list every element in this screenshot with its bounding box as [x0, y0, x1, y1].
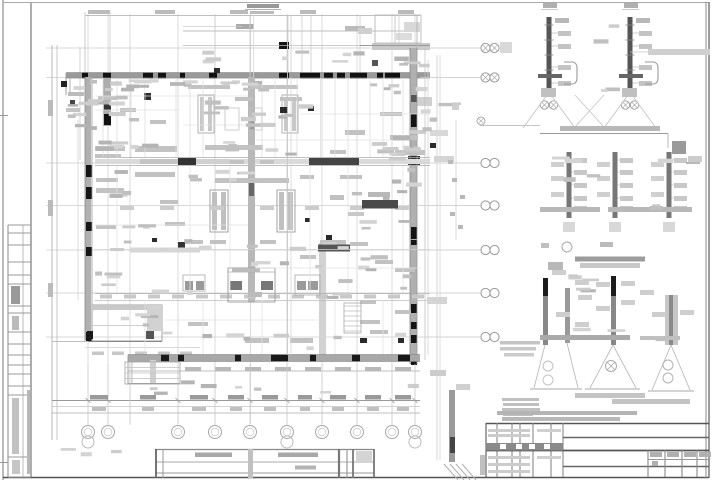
title block: [480, 423, 711, 477]
bottom exterior wall with columns: [128, 355, 420, 372]
annotation noise right wall zone: [389, 127, 432, 187]
long vertical section lines: [437, 55, 456, 460]
middle axis bubble pairs: [481, 42, 512, 342]
row3 header: [541, 242, 645, 268]
annotation noise stage area: [121, 313, 159, 326]
stage room bottom left: [52, 305, 200, 355]
annotation noise above top wall: [202, 51, 364, 64]
annotation noise below top wall: [73, 79, 197, 91]
row2 header label band: [540, 126, 668, 148]
sheet border frame inner left line: [30, 2, 32, 478]
annotation noise right details row3: [568, 275, 667, 342]
fixture detail lower left: [183, 275, 205, 291]
row1 crossing braces: [574, 95, 605, 128]
annotation noise y258 band: [251, 255, 388, 269]
rebar detail row2 b: [597, 152, 633, 232]
corner pier top-left: [61, 78, 111, 126]
row2 horizontal tie band: [540, 207, 692, 212]
top dimension line 2: [183, 24, 420, 31]
annotation noise upper-left interior: [68, 96, 139, 130]
row3 footing marker circles: [543, 360, 673, 385]
lintel beam mark: [330, 192, 398, 216]
interior dimension string y295: [95, 294, 430, 301]
bottom dimension lines: [52, 364, 420, 425]
row1 long leader label: [630, 49, 710, 55]
annotation noise below top wall right: [220, 80, 269, 91]
bottom axis bubbles: [82, 426, 422, 449]
vestibule outline top right: [375, 15, 459, 110]
row3 label boxes: [552, 270, 694, 327]
annotation noise below-plan dims: [150, 380, 419, 395]
top dim segment y26: [183, 26, 242, 28]
rebar detail row2 c: [651, 152, 687, 232]
plan title text: [245, 4, 281, 14]
row3 detail middle bar: [611, 276, 616, 345]
annotation noise y240 band: [110, 239, 349, 251]
annotation noise right details row1 gaps: [594, 24, 621, 92]
rebar detail row1 right (column elevation): [604, 3, 658, 128]
top dimension line 1: [85, 10, 420, 16]
left registration strip with stamp cells: [0, 116, 31, 478]
annotation noise below beam: [115, 170, 263, 182]
annotation noise mid-left: [96, 141, 159, 151]
left dimension lines: [48, 45, 57, 440]
level mark text row y207: [120, 206, 409, 210]
top dim extension verticals: [80, 12, 375, 160]
annotation noise above bottom wall: [161, 332, 406, 351]
vertical column axis grid lines: [88, 14, 415, 424]
left exterior wall with columns: [78, 77, 92, 341]
sheet border frame bottom line: [3, 477, 709, 479]
row3 tie band: [540, 335, 680, 340]
top annotation boxes: [358, 22, 420, 66]
bottom wall left segment: [128, 355, 180, 384]
annotation noise upper-mid interior: [204, 100, 313, 127]
fixture detail lower right: [295, 275, 320, 295]
pilaster pair below top wall: [198, 95, 298, 133]
small pilaster boxes below top wall: [225, 108, 262, 130]
annotation noise right of wall upper: [421, 102, 461, 121]
row3 detail right bar: [665, 295, 678, 345]
pilaster pair mid plan: [210, 190, 295, 232]
upper right wall band: [183, 42, 430, 50]
wall section detail lower centre: [427, 130, 476, 480]
interior partition hairlines: [95, 78, 430, 354]
sheet border frame top line: [3, 2, 709, 4]
sheet border frame right double line: [706, 2, 709, 478]
annotation noise mid-centre: [223, 141, 296, 155]
row3 detail left bars: [543, 262, 570, 345]
annotation noise room2 left: [110, 191, 157, 229]
horizontal column axis grid lines: [46, 48, 482, 337]
corridor wall lines x287: [250, 16, 291, 356]
interior annotation text blobs: [95, 85, 425, 343]
interior beams y245: [95, 242, 430, 253]
secondary vertical strip: [319, 243, 326, 361]
leader lines to middle bubbles: [420, 48, 481, 337]
sheet border frame left outer line: [2, 0, 4, 480]
bottom centre schedule table: [155, 449, 374, 478]
annotation noise right of wall mid: [448, 160, 465, 229]
stair block right interior: [344, 303, 361, 333]
annotation noise below top wall far right: [370, 83, 427, 94]
central vertical wall: [248, 77, 255, 302]
row2 right bracket detail: [672, 141, 702, 163]
annotation noise room2 right: [352, 190, 415, 229]
rebar detail row1 left (column elevation): [523, 3, 577, 128]
row3 footing triangles: [530, 343, 694, 391]
annotation noise mid-right: [372, 142, 421, 155]
annotation noise under left bubbles: [61, 448, 122, 456]
annotation noise lower rooms: [95, 272, 193, 296]
annotation noise lower mid: [327, 268, 412, 299]
interior dark column marks: [144, 68, 436, 343]
middle beam row y160: [95, 158, 430, 166]
rebar detail row2 a: [551, 152, 587, 232]
annotation noise right details row2: [552, 157, 673, 210]
row3 bottom label bands: [575, 393, 690, 404]
fixture detail lower middle: [228, 268, 275, 302]
notes paragraph above title block: [497, 341, 637, 421]
right exterior wall with columns: [408, 48, 428, 365]
entrance steps bottom left: [125, 362, 180, 384]
row1 left axis tie: [477, 117, 540, 126]
annotation noise top vestibule: [394, 57, 429, 68]
top exterior wall with columns: [66, 73, 430, 96]
